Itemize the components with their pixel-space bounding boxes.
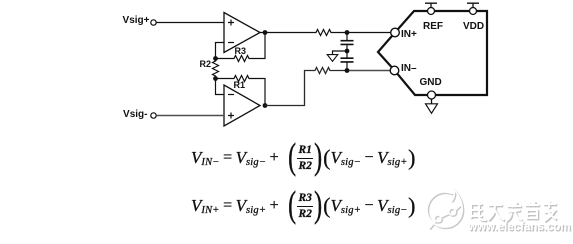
node A (junction R2 top / R3 left / U1 -) xyxy=(213,56,218,61)
wire node D to pin IN- xyxy=(347,70,390,72)
wire Vsig- to U2 + input xyxy=(156,115,224,117)
wire Vsig+ to op-amp U1 + input xyxy=(156,22,224,24)
ground (GND pin) xyxy=(431,99,433,104)
wire U1 output line with series resistor to IN+ xyxy=(260,30,391,36)
label IN+ xyxy=(401,29,417,40)
node U1 output junction xyxy=(263,30,268,35)
pin IN+ xyxy=(391,28,400,37)
wire U2 output L-path with series resistor to node D xyxy=(265,68,347,106)
pin VDD xyxy=(470,8,477,15)
terminal Vsig- xyxy=(151,113,156,118)
label R3 xyxy=(235,46,247,56)
node E (cap midpoint) xyxy=(345,49,350,54)
resistor R2 (vertical between node A and node B) xyxy=(213,59,219,79)
node D (IN- filter junction) xyxy=(345,68,350,73)
label REF xyxy=(423,21,443,32)
node C (IN+ filter junction) xyxy=(345,30,350,35)
VDD supply tap xyxy=(467,3,479,7)
capacitor C1 (IN+ to mid node) xyxy=(346,33,348,41)
resistor R1 (feedback U2) xyxy=(216,76,266,106)
terminal Vsig+ xyxy=(151,20,156,25)
label Vsig- xyxy=(123,109,147,120)
node B (junction R2 bottom / R1 left / U2 -) xyxy=(213,76,218,81)
wire node B to U2 inverting input xyxy=(216,79,225,95)
equation V_IN- xyxy=(191,142,415,173)
label R2 xyxy=(200,59,212,69)
pin REF xyxy=(428,8,435,15)
label GND xyxy=(420,77,442,88)
label IN- xyxy=(401,63,417,74)
label VDD xyxy=(463,21,484,32)
ground (cap midpoint) xyxy=(333,51,348,55)
REF supply tap xyxy=(425,3,437,7)
label R1 xyxy=(234,80,246,90)
ADC outline xyxy=(378,11,487,95)
node U2 output junction xyxy=(263,103,268,108)
pin IN- xyxy=(390,66,399,75)
pin GND xyxy=(428,91,436,99)
op-amp U1 (top) xyxy=(224,13,260,53)
capacitor C2 (mid node to IN-) xyxy=(346,51,348,58)
wire U1 inverting input to node A xyxy=(216,43,225,59)
op-amp U2 (bottom) xyxy=(224,85,260,126)
watermark logo xyxy=(427,190,464,230)
label Vsig+ xyxy=(123,15,150,26)
resistor R3 (feedback U1) xyxy=(216,33,266,62)
watermark chinese strokes xyxy=(469,201,557,222)
svg-text:www.elecfans.com: www.elecfans.com xyxy=(467,221,570,233)
equation V_IN+ xyxy=(191,190,415,221)
